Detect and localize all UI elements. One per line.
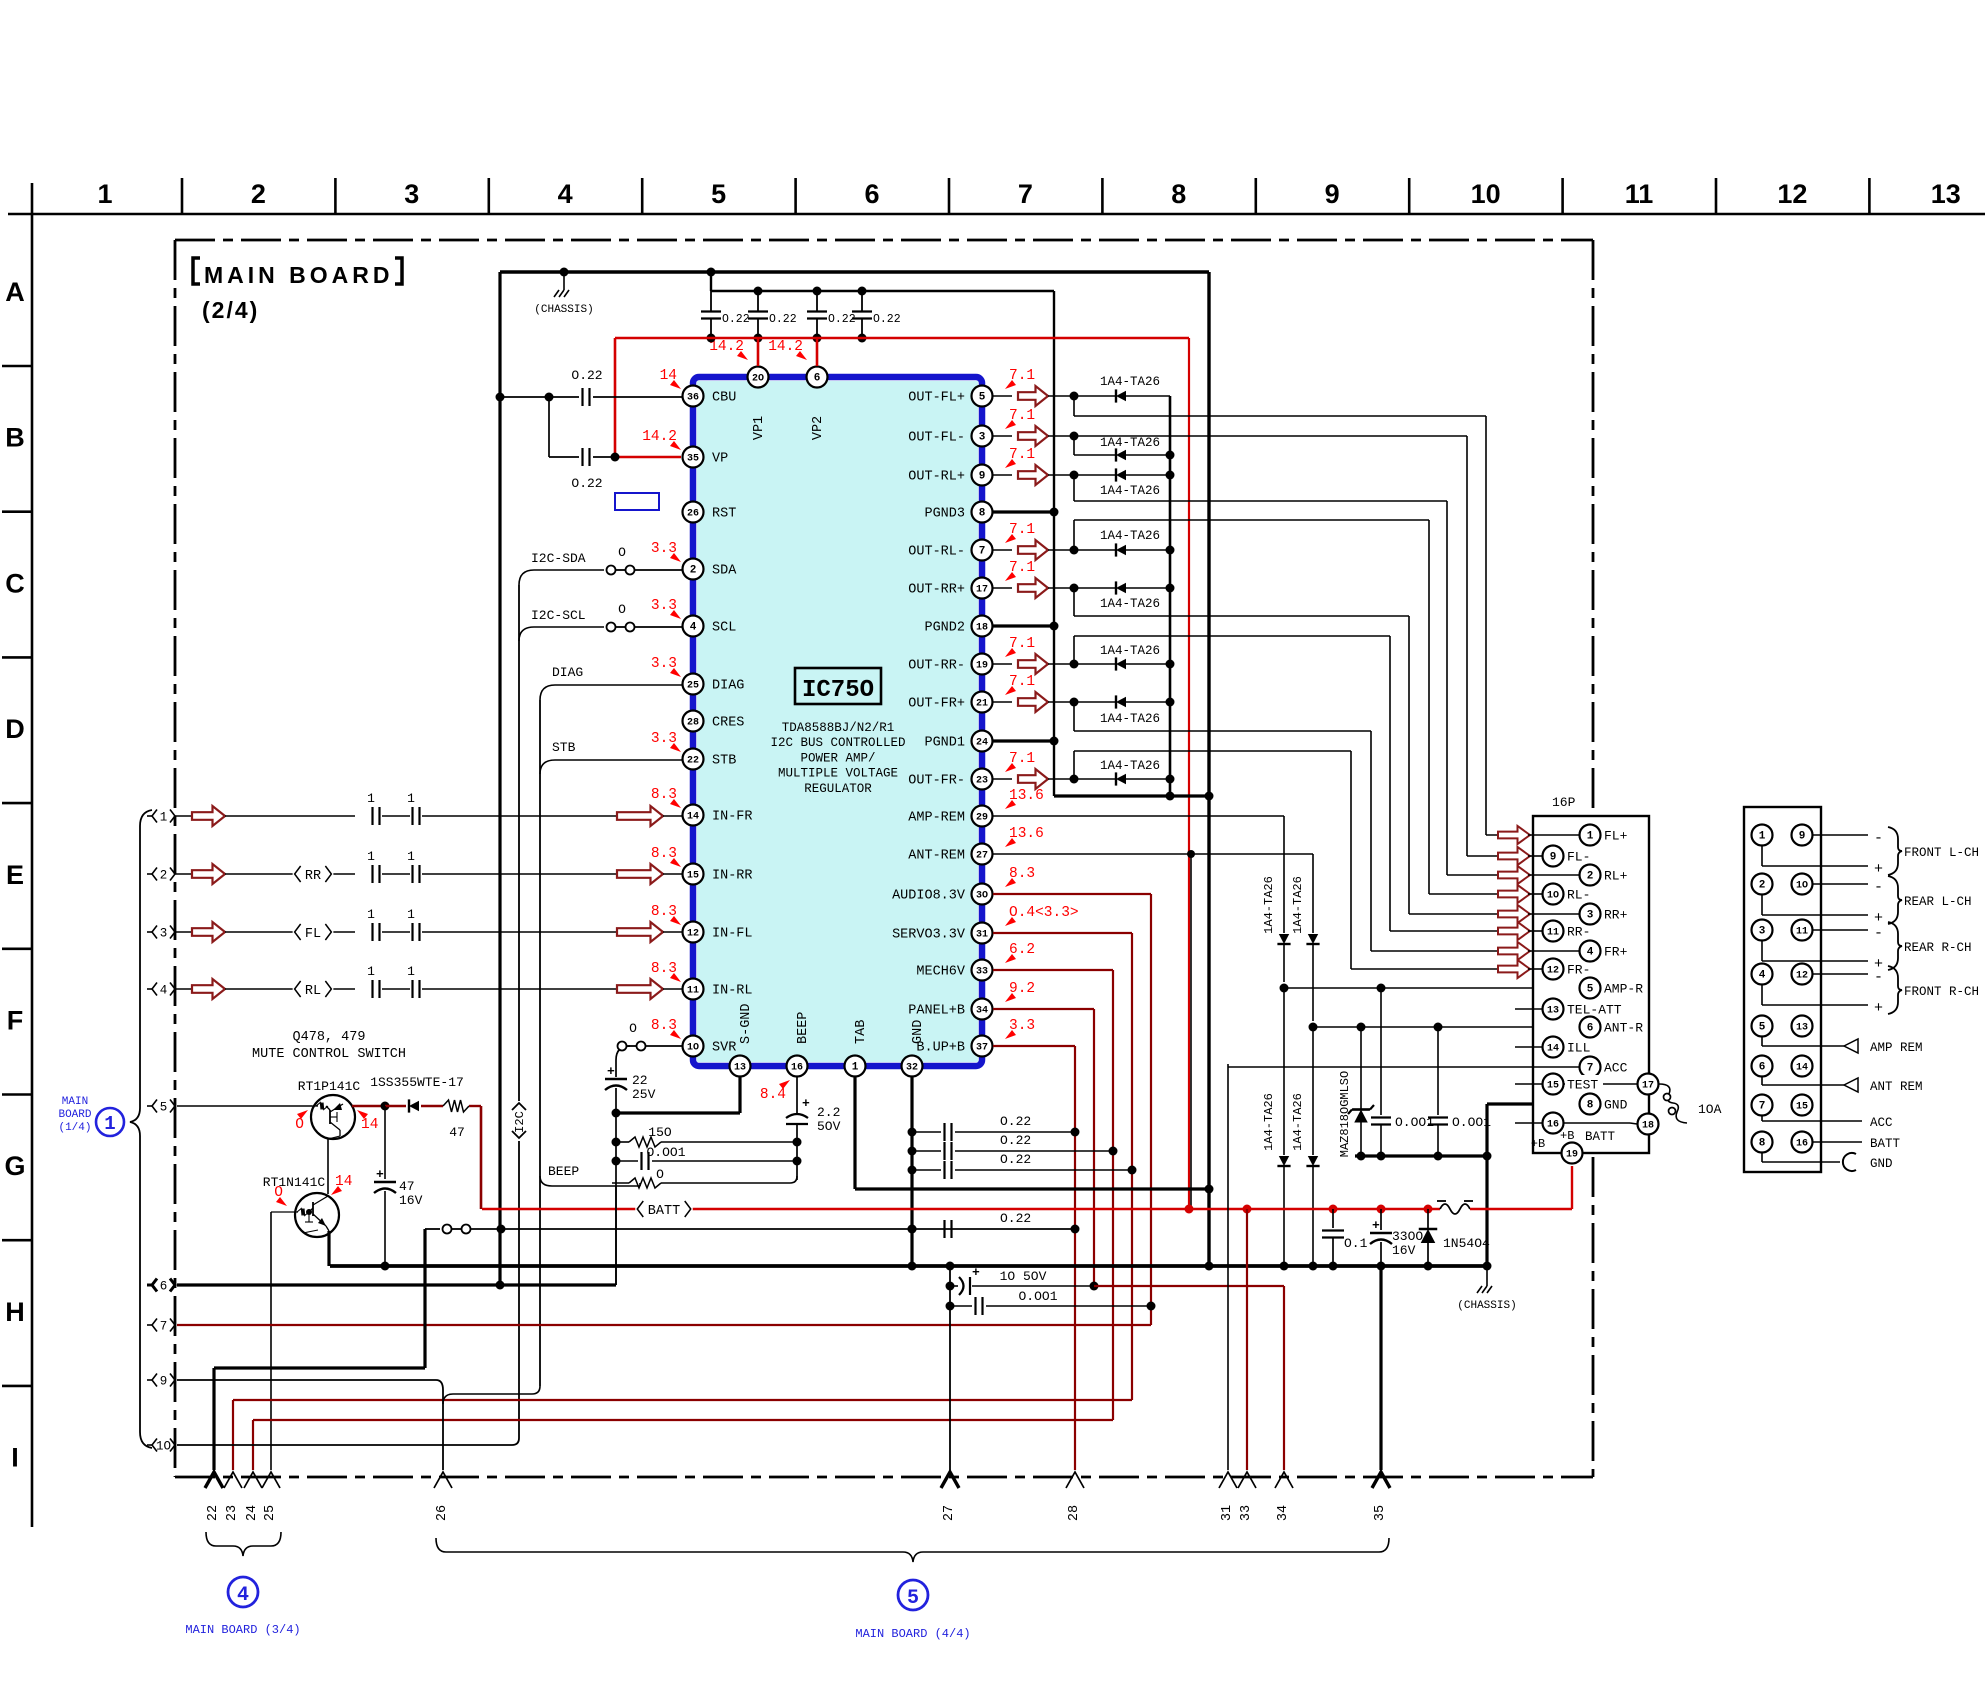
IC750 pin 21 OUT-FR+ (972, 692, 993, 713)
16P pin 9 FL- (1528, 855, 1542, 857)
IC750 pin 1 TAB (845, 1056, 866, 1077)
svg-text:2: 2 (160, 868, 168, 882)
svg-text:6.2: 6.2 (1009, 942, 1035, 958)
svg-text:1: 1 (407, 791, 415, 806)
svg-text:REGULATOR: REGULATOR (804, 782, 872, 796)
svg-text:PGND1: PGND1 (924, 736, 965, 751)
wire conn27 column (949, 1266, 951, 1470)
svg-text:3.3: 3.3 (651, 731, 677, 747)
IC750 pin 28 CRES (683, 711, 704, 732)
svg-text:Q478, 479: Q478, 479 (293, 1030, 366, 1045)
fuse 10A (1659, 1084, 1687, 1123)
svg-text:+: + (1874, 861, 1883, 878)
svg-text:RR: RR (305, 869, 321, 884)
svg-text:5: 5 (1759, 1022, 1766, 1034)
svg-text:MAIN: MAIN (62, 1096, 88, 1108)
svg-text:GND: GND (1870, 1157, 1893, 1171)
svg-text:1: 1 (407, 907, 415, 922)
speaker channel REAR L-CH (1813, 883, 1868, 885)
wire TEST to fuse pin17 (1564, 1083, 1637, 1085)
svg-text:1SS355WTE-17: 1SS355WTE-17 (370, 1075, 464, 1090)
svg-text:RL-: RL- (1567, 888, 1590, 903)
wire red to BATT row (480, 1106, 483, 1209)
svg-text:+B: +B (1531, 1137, 1545, 1151)
svg-text:O.22: O.22 (873, 313, 901, 326)
svg-text:4: 4 (558, 179, 573, 209)
speaker conn pins 7/15 (1752, 1095, 1773, 1116)
svg-text:H: H (5, 1297, 25, 1327)
IC750 pin 5 OUT-FL+ (972, 386, 993, 407)
svg-text:26: 26 (435, 1505, 450, 1521)
transistor Q479 RT1N141C (295, 1193, 339, 1237)
wire SERVO3.3V rail down to conn23 row (1131, 933, 1133, 1400)
IC750 pin 27 ANT-REM (972, 844, 993, 865)
svg-text:+: + (972, 1265, 980, 1280)
net SVR link (616, 1046, 630, 1060)
svg-text:REAR L-CH: REAR L-CH (1904, 895, 1972, 909)
svg-text:O.OO1: O.OO1 (646, 1145, 685, 1160)
wire B.UP+B rail down to conn28 (1074, 1046, 1076, 1470)
16P pin 11 RR- (1528, 930, 1542, 932)
svg-text:IN-FR: IN-FR (712, 810, 753, 825)
IC750 pin 12 IN-FL (683, 922, 704, 943)
bottom connector 24 (244, 1472, 262, 1488)
16P pin 2 RL+ (1528, 874, 1579, 876)
svg-text:ILL: ILL (1567, 1041, 1590, 1056)
svg-text:27: 27 (942, 1505, 957, 1521)
bottom connector 28 (1066, 1472, 1084, 1488)
svg-text:1N54O4: 1N54O4 (1443, 1236, 1490, 1251)
svg-text:+: + (376, 1167, 384, 1182)
svg-text:1: 1 (1759, 831, 1766, 843)
svg-text:33: 33 (976, 967, 988, 978)
svg-text:3: 3 (1759, 926, 1766, 938)
svg-text:1: 1 (367, 964, 375, 979)
wire: cap bus (711, 290, 1054, 292)
16P pin 5 AMP-R (1580, 978, 1601, 999)
svg-text:3: 3 (404, 179, 419, 209)
IC750 pin 19 OUT-RR- (972, 654, 993, 675)
svg-text:12: 12 (1547, 966, 1559, 977)
svg-text:O.22: O.22 (1000, 1211, 1031, 1226)
16P pin 7 ACC (1580, 1057, 1601, 1078)
16P pin 8 GND (1580, 1094, 1601, 1115)
capacitor 0.001 (x1438) (1437, 1027, 1439, 1115)
wire ANT-R to 16P pin6 (1313, 1026, 1579, 1028)
svg-text:7.1: 7.1 (1009, 560, 1035, 576)
svg-text:25: 25 (263, 1505, 278, 1521)
svg-text:PGND2: PGND2 (924, 621, 965, 636)
svg-text:13.6: 13.6 (1009, 788, 1044, 804)
svg-text:14.2: 14.2 (642, 429, 677, 445)
wire: top VP bus box (500, 270, 1209, 273)
bottom connector 26 (434, 1472, 452, 1488)
circled 4 (228, 1577, 258, 1607)
svg-text:O: O (656, 1167, 664, 1182)
wire PGND bus bottom (1054, 794, 1209, 797)
svg-text:6: 6 (1759, 1062, 1766, 1074)
wire: red VP feed bus (615, 337, 1189, 340)
speaker channel FRONT L-CH (1813, 834, 1868, 836)
svg-text:14: 14 (335, 1174, 352, 1190)
svg-text:SDA: SDA (712, 564, 737, 579)
capacitor 0.22 (gnd row 3) (908, 1166, 917, 1175)
svg-text:13: 13 (1931, 179, 1961, 209)
svg-text:1A4-TA26: 1A4-TA26 (1262, 1093, 1276, 1151)
svg-text:ANT-REM: ANT-REM (908, 849, 965, 864)
svg-text:RR-: RR- (1567, 925, 1590, 940)
svg-text:18: 18 (976, 623, 988, 634)
svg-text:STB: STB (712, 754, 736, 769)
net GND (1761, 1153, 1763, 1162)
svg-text:TEL-ATT: TEL-ATT (1567, 1003, 1622, 1018)
IC750 pin 3 OUT-FL- (972, 426, 993, 447)
svg-text:4: 4 (160, 983, 168, 997)
svg-text:ACC: ACC (1870, 1116, 1893, 1130)
svg-text:1: 1 (852, 1062, 859, 1074)
input row 6 (147, 1284, 152, 1287)
svg-text:5: 5 (711, 179, 726, 209)
svg-text:1A4-TA26: 1A4-TA26 (1100, 436, 1160, 450)
svg-text:MAIN BOARD: MAIN BOARD (204, 262, 394, 288)
svg-text:I2C-SCL: I2C-SCL (531, 608, 586, 623)
svg-text:1O: 1O (1796, 881, 1808, 892)
svg-text:13: 13 (734, 1063, 746, 1074)
svg-text:28: 28 (1067, 1505, 1082, 1521)
net AMP REM (1761, 1037, 1763, 1046)
svg-text:1A4-TA26: 1A4-TA26 (1100, 529, 1160, 543)
svg-text:19: 19 (976, 661, 988, 672)
gnd bus thick bottom (330, 1264, 1487, 1268)
svg-text:1: 1 (407, 849, 415, 864)
net DIAG (540, 685, 682, 700)
capacitor 0.22 at VP (548, 397, 550, 457)
svg-text:3.3: 3.3 (651, 598, 677, 614)
wire red rail MECH (993, 969, 1113, 971)
svg-text:9.2: 9.2 (1009, 981, 1035, 997)
speaker conn pins 4/12 (1752, 964, 1773, 985)
svg-text:-: - (1874, 925, 1883, 942)
wire AUDIO8.3V rail down to row7 (1150, 894, 1152, 1325)
16P pin 3 RR+ (1528, 913, 1579, 915)
svg-text:1: 1 (160, 810, 168, 824)
svg-text:MULTIPLE VOLTAGE: MULTIPLE VOLTAGE (778, 767, 898, 781)
net label I2C break (512, 1103, 526, 1110)
input row 10 (147, 1444, 152, 1446)
16P pin 17 (1638, 1074, 1659, 1095)
svg-text:+: + (1874, 1000, 1883, 1017)
wire Q479 emitter to gnd bus (327, 1231, 330, 1266)
svg-text:F: F (7, 1006, 24, 1036)
svg-text:O: O (618, 602, 626, 617)
IC750 pin 26 RST (683, 502, 704, 523)
IC750 pin 35 VP (683, 447, 704, 468)
svg-text:14: 14 (361, 1117, 378, 1133)
svg-text:RST: RST (712, 507, 736, 522)
svg-text:MAZ818OGMLSO: MAZ818OGMLSO (1338, 1071, 1352, 1157)
svg-text:STB: STB (552, 740, 576, 755)
svg-text:I2C-SDA: I2C-SDA (531, 551, 586, 566)
svg-text:8.3: 8.3 (1009, 866, 1035, 882)
svg-text:IC75O: IC75O (802, 677, 874, 704)
svg-text:11: 11 (1796, 927, 1808, 938)
svg-text:SCL: SCL (712, 621, 736, 636)
svg-text:RR+: RR+ (1604, 908, 1628, 923)
svg-text:26: 26 (687, 509, 699, 520)
svg-text:1: 1 (367, 849, 375, 864)
svg-text:25V: 25V (632, 1087, 656, 1102)
svg-text:16V: 16V (399, 1193, 423, 1208)
svg-text:5: 5 (907, 1587, 919, 1610)
svg-text:6: 6 (1587, 1023, 1594, 1035)
svg-text:OUT-FR-: OUT-FR- (908, 774, 965, 789)
svg-text:7.1: 7.1 (1009, 636, 1035, 652)
wire: red BATT vertical (1188, 338, 1190, 1209)
svg-text:29: 29 (976, 813, 988, 824)
resistor 47 (443, 1100, 469, 1112)
svg-text:O: O (274, 1185, 283, 1201)
svg-text:18: 18 (1642, 1121, 1654, 1132)
IC750 pin 11 IN-RL (683, 979, 704, 1000)
16P pin 10 RL- (1528, 893, 1542, 895)
svg-text:9: 9 (979, 471, 986, 483)
bottom connector 23 (224, 1472, 242, 1488)
svg-text:7.1: 7.1 (1009, 674, 1035, 690)
svg-text:35: 35 (1373, 1505, 1388, 1521)
wire AMP-R to 16P pin5 (1284, 987, 1579, 989)
svg-text:5: 5 (979, 392, 986, 404)
svg-text:E: E (6, 860, 24, 890)
svg-text:5: 5 (1587, 984, 1594, 996)
input row 9 (147, 1379, 152, 1381)
wire conn33 column (1246, 1209, 1248, 1470)
svg-text:7.1: 7.1 (1009, 368, 1035, 384)
svg-text:31: 31 (976, 930, 988, 941)
output row pin y=396 with diode 1A4-TA26 (993, 395, 1012, 397)
resistor 150 (612, 1138, 621, 1147)
16P pin 14 ILL (1515, 1046, 1542, 1048)
IC750 pin 34 PANEL+B (972, 999, 993, 1020)
svg-text:AMP-REM: AMP-REM (908, 811, 965, 826)
svg-text:RT1P141C: RT1P141C (298, 1079, 361, 1094)
svg-text:O.22: O.22 (828, 313, 856, 326)
svg-text:8: 8 (1171, 179, 1186, 209)
IC750 pin 8 PGND3 (972, 502, 993, 523)
svg-text:1A4-TA26: 1A4-TA26 (1291, 876, 1305, 934)
speaker conn pins 1/9 (1752, 825, 1773, 846)
svg-text:O.22: O.22 (571, 368, 602, 383)
svg-text:1: 1 (367, 791, 375, 806)
svg-text:1O: 1O (1547, 891, 1559, 902)
svg-text:9: 9 (1550, 852, 1557, 864)
svg-text:3: 3 (160, 926, 168, 940)
svg-text:1: 1 (367, 907, 375, 922)
svg-text:G: G (4, 1151, 25, 1181)
svg-text:O: O (629, 1021, 637, 1036)
IC750 pin 16 BEEP (787, 1056, 808, 1077)
svg-text:25: 25 (687, 681, 699, 692)
svg-text:1: 1 (104, 1113, 115, 1135)
capacitor 0.001 (bottom) (950, 1305, 972, 1307)
capacitor 0.1 (1332, 1209, 1334, 1228)
16P pin 6 ANT-R (1580, 1017, 1601, 1038)
net BATT (1813, 1141, 1862, 1143)
wire BEEP pin16 down (796, 1077, 798, 1114)
IC750 pin 7 OUT-RL- (972, 540, 993, 561)
svg-text:7: 7 (979, 546, 986, 558)
capacitor 0.001 (x1381) (1380, 988, 1382, 1115)
svg-text:TEST: TEST (1567, 1078, 1598, 1093)
wire I2C vertical (518, 585, 520, 1101)
svg-text:FRONT L-CH: FRONT L-CH (1904, 846, 1979, 860)
svg-text:ACC: ACC (1604, 1061, 1628, 1076)
svg-text:1: 1 (407, 964, 415, 979)
svg-text:5: 5 (160, 1100, 168, 1114)
svg-text:14: 14 (1547, 1044, 1559, 1055)
svg-text:1O: 1O (156, 1439, 171, 1453)
svg-text:24: 24 (245, 1505, 260, 1521)
svg-text:7: 7 (1018, 179, 1033, 209)
bottom connector 27 (941, 1472, 959, 1488)
speaker conn pins 3/11 (1752, 920, 1773, 941)
svg-text:16: 16 (1796, 1139, 1808, 1150)
svg-text:(1/4): (1/4) (58, 1122, 91, 1134)
svg-text:BEEP: BEEP (796, 1012, 811, 1044)
net I2C-SCL (519, 627, 604, 641)
svg-text:GND: GND (911, 1020, 926, 1044)
svg-text:FR-: FR- (1567, 963, 1590, 978)
capacitor 47/16V (384, 1106, 386, 1179)
svg-text:31: 31 (1220, 1505, 1235, 1521)
output row pin y=550 with diode 1A4-TA26 (993, 549, 1012, 551)
input row 5 (147, 1105, 152, 1107)
svg-text:AMP-R: AMP-R (1604, 982, 1643, 997)
IC750 pin 18 PGND2 (972, 616, 993, 637)
wire Q478 emitter red (352, 1105, 385, 1107)
svg-text:RL+: RL+ (1604, 869, 1628, 884)
svg-text:IN-FL: IN-FL (712, 927, 753, 942)
svg-text:1: 1 (1587, 831, 1594, 843)
wire DIAG/STB vertical (539, 700, 541, 1386)
IC750 pin 17 OUT-RR+ (972, 578, 993, 599)
svg-text:1A4-TA26: 1A4-TA26 (1100, 759, 1160, 773)
svg-text:(2/4): (2/4) (202, 297, 259, 323)
svg-text:11: 11 (1625, 179, 1654, 209)
svg-text:O.22: O.22 (722, 313, 750, 326)
svg-text:POWER AMP/: POWER AMP/ (800, 751, 875, 765)
svg-text:VP1: VP1 (752, 416, 767, 440)
svg-text:I: I (11, 1443, 19, 1473)
svg-text:+: + (1372, 1218, 1380, 1233)
brace 4 (206, 1532, 281, 1556)
svg-text:5OV: 5OV (817, 1119, 841, 1134)
net I2C-SDA (519, 570, 604, 585)
svg-text:24: 24 (976, 738, 988, 749)
svg-text:PGND3: PGND3 (924, 507, 965, 522)
bottom connector 31 (1219, 1472, 1237, 1488)
svg-text:C: C (5, 568, 25, 598)
svg-text:11: 11 (687, 986, 699, 997)
capacitor 0.22 (switch row) (943, 1220, 945, 1238)
IC750 pin 6 VP2 (807, 367, 828, 388)
capacitor 0.22 at CBU (500, 396, 579, 398)
speaker conn pins 6/14 (1752, 1056, 1773, 1077)
svg-text:ANT REM: ANT REM (1870, 1080, 1923, 1094)
svg-text:14: 14 (660, 368, 677, 384)
circled 5 (898, 1580, 928, 1610)
svg-text:17: 17 (976, 585, 988, 596)
svg-text:7: 7 (160, 1319, 168, 1333)
capacitor 0.22 (gnd row 1) (908, 1128, 917, 1137)
svg-text:15: 15 (1547, 1081, 1559, 1092)
svg-text:GND: GND (1604, 1098, 1628, 1113)
wire GND pin32 (910, 1077, 913, 1266)
16P pin 4 FR+ (1528, 950, 1579, 952)
svg-text:10: 10 (1471, 179, 1501, 209)
svg-text:D: D (5, 714, 25, 744)
IC750 pin 31 SERVO3.3V (972, 923, 993, 944)
svg-text:15: 15 (687, 871, 699, 882)
svg-text:8.3: 8.3 (651, 961, 677, 977)
svg-text:8.3: 8.3 (651, 846, 677, 862)
output row pin y=664 with diode 1A4-TA26 (993, 663, 1012, 665)
svg-text:1OA: 1OA (1698, 1102, 1722, 1117)
svg-text:IN-RL: IN-RL (712, 984, 753, 999)
svg-text:3.3: 3.3 (651, 541, 677, 557)
svg-text:9: 9 (160, 1374, 168, 1388)
svg-text:4: 4 (1587, 947, 1594, 959)
svg-text:(CHASSIS): (CHASSIS) (534, 304, 593, 316)
svg-text:7.1: 7.1 (1009, 751, 1035, 767)
bottom connector 35 (1372, 1472, 1390, 1488)
red labels Q478 (297, 1110, 308, 1119)
wire conn31 column / ACC net (1227, 1064, 1229, 1470)
svg-text:O.OO1: O.OO1 (1452, 1115, 1491, 1130)
svg-text:22: 22 (687, 756, 699, 767)
svg-text:BATT: BATT (1870, 1137, 1901, 1151)
wire conn22 path (423, 1229, 426, 1368)
svg-text:9: 9 (1799, 831, 1806, 843)
capacitor 0.001 (612, 1157, 621, 1166)
svg-text:27: 27 (976, 851, 988, 862)
svg-text:47: 47 (449, 1125, 465, 1140)
input row 3 (147, 931, 152, 933)
IC750 pin 37 B.UP+B (972, 1036, 993, 1057)
svg-text:37: 37 (976, 1043, 988, 1054)
switch row (mute defeat) (425, 1228, 440, 1230)
svg-text:34: 34 (976, 1006, 988, 1017)
svg-text:1A4-TA26: 1A4-TA26 (1291, 1093, 1305, 1151)
capacitor 3300/16V (1380, 1209, 1382, 1230)
svg-text:1O: 1O (687, 1043, 699, 1054)
svg-text:3.3: 3.3 (1009, 1018, 1035, 1034)
IC750 pin 20 VP1 (748, 367, 769, 388)
wire Q479 base to conn25 (270, 1212, 272, 1470)
svg-text:33OO: 33OO (1392, 1229, 1423, 1244)
svg-text:FL+: FL+ (1604, 829, 1628, 844)
svg-text:17: 17 (1642, 1081, 1654, 1092)
svg-text:OUT-FL-: OUT-FL- (908, 431, 965, 446)
svg-text:-: - (1874, 969, 1883, 986)
svg-text:13: 13 (1547, 1006, 1559, 1017)
svg-text:4: 4 (237, 1584, 249, 1607)
svg-text:OUT-RR-: OUT-RR- (908, 659, 965, 674)
svg-text:15: 15 (1796, 1102, 1808, 1113)
svg-text:8: 8 (1587, 1100, 1594, 1112)
output row pin y=436 with diode 1A4-TA26 (993, 435, 1012, 437)
svg-text:2: 2 (1759, 880, 1766, 892)
svg-text:AUDIO8.3V: AUDIO8.3V (892, 889, 966, 904)
